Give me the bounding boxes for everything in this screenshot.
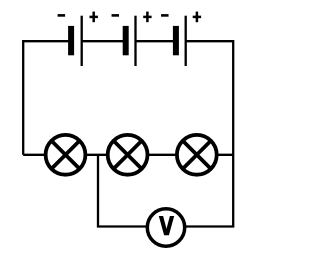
lamp L2 [108, 135, 148, 175]
voltmeter V1 [147, 209, 184, 246]
wire: top-right segment with right rail down to bottom and to voltmeter [184, 41, 233, 226]
battery B1 positive plate (thin long line) [81, 16, 83, 66]
battery B2 positive plate (thin long line) [134, 16, 136, 66]
lamp L1 [46, 135, 86, 175]
label + for B3 [193, 16, 201, 19]
wire: between cell 1 and cell 2 [83, 40, 125, 42]
battery B3 negative plate (thick short bar) [173, 26, 179, 55]
wire: top-left segment with left rail corner [23, 41, 70, 155]
battery B3 positive plate (thin long line) [185, 16, 187, 66]
battery B2 negative plate (thick short bar) [123, 26, 129, 55]
wire: between cell 2 and cell 3 [136, 40, 174, 42]
lamp L3 [177, 135, 217, 175]
label - for B2 [112, 14, 120, 17]
label + for B2 [143, 16, 151, 19]
label - for B1 [58, 14, 66, 17]
battery B1 negative plate (thick short bar) [68, 26, 74, 55]
label - for B3 [161, 14, 169, 17]
wire: junction vertical down to voltmeter loop [98, 155, 148, 227]
label + for B1 [90, 16, 98, 19]
wire: lamp row horizontal [23, 154, 233, 156]
